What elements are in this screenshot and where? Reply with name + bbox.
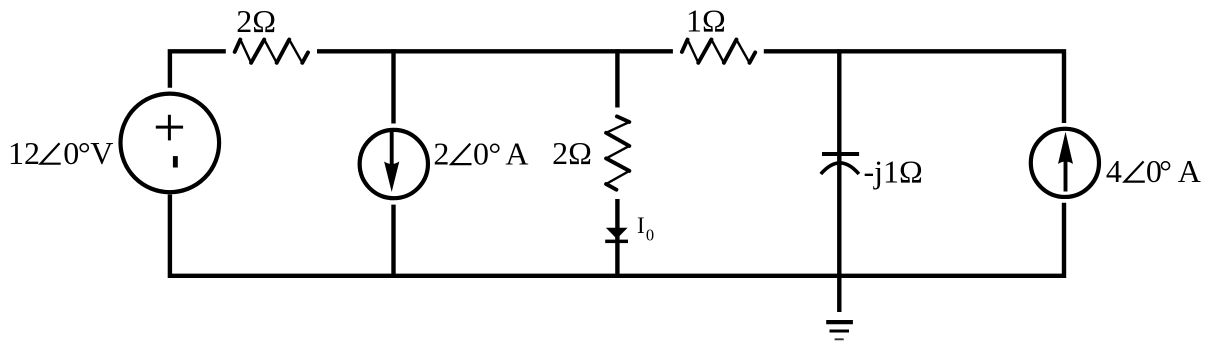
- current source 2∠0°A arrow (downward): [384, 131, 399, 192]
- wire: 2Ω vertical resistor bottom lead (through I0 arrow): [615, 199, 619, 278]
- wire: current source 2∠0°A bottom lead: [391, 205, 395, 278]
- wire: top-right corner segment (1Ω right lead to current source 4∠0°A top): [764, 51, 1064, 123]
- label 2∠0°A (angle symbol): [451, 144, 471, 165]
- wire: capacitor branch vertical (top rail to bottom rail): [837, 49, 841, 278]
- resistor 1Ω (top right, horizontal zigzag): [682, 40, 755, 63]
- label 12∠0°V (angle symbol): [41, 143, 61, 164]
- svg-text:1Ω: 1Ω: [686, 2, 726, 38]
- svg-text:°: °: [488, 135, 501, 171]
- svg-text:2Ω: 2Ω: [236, 3, 276, 39]
- wire: ground stub: [837, 274, 841, 312]
- current source 4∠0°A arrow (upward): [1058, 132, 1073, 192]
- svg-text:12: 12: [8, 135, 40, 171]
- voltage source minus tick (vertical dash): [173, 156, 178, 167]
- wire: voltage source bottom lead + bottom rail + right source bottom lead: [170, 194, 1064, 275]
- current source 2∠0°A (circle): [360, 130, 428, 198]
- resistor 2Ω (top left, horizontal zigzag): [235, 40, 308, 63]
- wire: top-left corner segment (node A to resistor 2Ω left lead): [170, 51, 226, 87]
- svg-text:°: °: [1159, 153, 1172, 189]
- capacitor -j1Ω (flat top plate): [822, 152, 859, 156]
- svg-text:A: A: [505, 135, 528, 171]
- resistor 2Ω (middle, vertical zigzag): [606, 116, 629, 189]
- svg-text:°: °: [78, 135, 91, 171]
- svg-text:0: 0: [473, 135, 489, 171]
- svg-text:A: A: [1178, 153, 1201, 189]
- current arrow I0 (solid triangle): [606, 228, 628, 239]
- svg-text:2: 2: [433, 135, 449, 171]
- svg-text:0: 0: [63, 135, 79, 171]
- svg-text:2Ω: 2Ω: [552, 135, 592, 171]
- svg-text:-j1Ω: -j1Ω: [864, 154, 923, 190]
- ground (three bars): [826, 322, 853, 339]
- capacitor -j1Ω (curved bottom plate): [821, 163, 859, 174]
- svg-text:I: I: [637, 213, 645, 238]
- voltage source plus sign: [156, 115, 183, 141]
- wire: top middle segment (2Ω right lead to 1Ω left lead): [317, 49, 673, 53]
- current source 4∠0°A (circle): [1031, 129, 1099, 197]
- label 4∠0°A (angle symbol): [1125, 161, 1145, 181]
- wire: 2Ω vertical resistor top lead: [615, 49, 619, 107]
- svg-text:0: 0: [646, 225, 654, 244]
- svg-text:4: 4: [1106, 153, 1122, 189]
- wire: current source 2∠0°A top lead: [391, 49, 395, 123]
- current arrow I0 (crossbar): [605, 240, 628, 244]
- voltage source 12∠0°V (circle): [121, 94, 220, 193]
- svg-text:V: V: [90, 135, 113, 171]
